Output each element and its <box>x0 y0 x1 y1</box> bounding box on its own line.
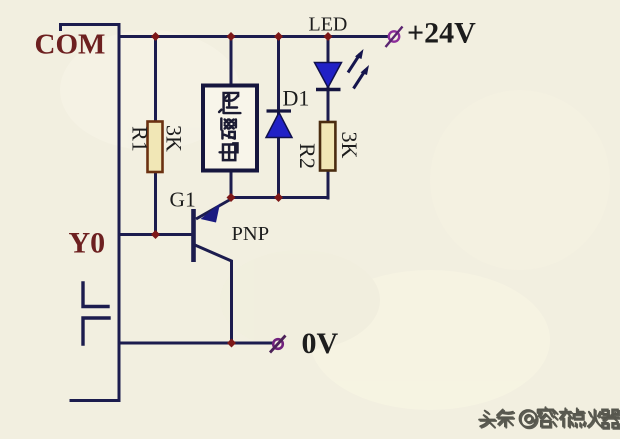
svg-text:R1: R1 <box>127 126 152 152</box>
svg-text:+24V: +24V <box>407 17 476 50</box>
svg-text:LED: LED <box>309 14 348 36</box>
svg-text:G1: G1 <box>170 188 196 212</box>
svg-text:3K: 3K <box>337 132 362 159</box>
svg-text:PNP: PNP <box>232 223 270 245</box>
svg-text:COM: COM <box>35 29 106 61</box>
svg-text:R2: R2 <box>295 143 320 169</box>
svg-text:Y0: Y0 <box>69 227 106 260</box>
svg-text:D1: D1 <box>283 86 310 111</box>
svg-text:3K: 3K <box>161 125 186 152</box>
svg-text:0V: 0V <box>302 327 339 360</box>
